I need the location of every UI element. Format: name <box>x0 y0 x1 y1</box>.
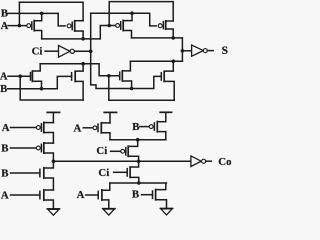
wire B lower <box>8 76 72 88</box>
wire sum node right <box>132 38 183 61</box>
inverter U3 Co <box>191 156 211 167</box>
input label A <box>1 21 9 32</box>
input label B carry-right-N <box>132 188 139 200</box>
junction dot NMOS rail <box>81 62 85 66</box>
svg-text:S: S <box>222 45 228 57</box>
junction dot node1 <box>136 138 140 142</box>
svg-text:B: B <box>1 168 8 180</box>
junction dot carry node left <box>52 160 56 164</box>
wire Ci carry-P <box>111 150 121 152</box>
junction dot rail x173 <box>171 36 175 40</box>
transistor Q5 NMOS gate A <box>31 64 42 89</box>
transistor Q13 PMOS gate A <box>93 123 110 140</box>
transistor Q16 NMOS gate Ci <box>127 161 139 183</box>
ground left <box>47 209 59 215</box>
wire carry node rail <box>53 160 191 162</box>
ground middle <box>103 209 115 216</box>
svg-text:Ci: Ci <box>98 167 109 179</box>
wire A carry-mid-N <box>86 194 99 196</box>
input label A carry-N <box>1 190 9 202</box>
svg-text:B: B <box>0 84 7 95</box>
wire top rail 2 <box>109 2 173 26</box>
junction dot S inverter tap <box>181 49 185 53</box>
transistor Q8 NMOS <box>161 61 174 100</box>
transistor Q12 NMOS gate A <box>40 190 54 209</box>
VDD bar left <box>47 112 59 122</box>
input label A lower <box>0 72 8 83</box>
junction dot Ci-bar tap <box>89 50 93 54</box>
input label B <box>1 9 8 20</box>
junction dot P3 gate line <box>107 24 111 28</box>
junction dot Ci-bar upper line <box>130 11 134 15</box>
svg-text:B: B <box>1 143 8 155</box>
transistor Q2 PMOS gate B <box>67 21 83 39</box>
junction dot A line <box>18 24 22 28</box>
svg-text:Ci: Ci <box>96 145 107 157</box>
wire A carry-P <box>11 127 37 129</box>
svg-text:Ci: Ci <box>32 45 43 57</box>
wire A carry-N <box>11 194 40 196</box>
wire PMOS parallel node <box>110 139 166 141</box>
wire A carry-mid <box>83 127 93 129</box>
wire top rail 1 <box>19 2 83 21</box>
wire Ci-bar upper <box>91 13 157 26</box>
junction dot B line <box>40 12 44 16</box>
transistor Q7 NMOS <box>120 61 132 88</box>
inverter U1 Ci <box>45 45 91 57</box>
input label A carry-mid-N <box>77 189 85 201</box>
VDD bar right <box>160 112 171 121</box>
transistor Q3 PMOS <box>116 13 132 38</box>
wire NMOS sum rail <box>130 60 182 62</box>
wire B carry-P <box>11 147 37 149</box>
output label Co <box>218 156 231 168</box>
junction dot Q7 source <box>130 87 134 91</box>
input label A carry-P <box>2 122 10 134</box>
svg-text:A: A <box>2 122 10 134</box>
input label B lower <box>0 84 7 95</box>
wire B carry-N <box>11 172 40 174</box>
svg-text:A: A <box>73 122 81 134</box>
input label B carry-right <box>132 121 139 133</box>
transistor Q4 PMOS gate Ci-bar <box>158 21 173 38</box>
transistor Q10 PMOS gate B <box>36 143 53 161</box>
transistor Q18 NMOS gate B <box>153 183 167 208</box>
transistor Q15 PMOS gate Ci <box>121 140 139 162</box>
wire Ci carry-N <box>114 171 128 173</box>
input label Ci carry-P <box>96 145 107 157</box>
input label Ci carry-N <box>98 167 109 179</box>
junction dot A lower <box>18 74 22 78</box>
svg-text:B: B <box>132 121 139 133</box>
wire Ci-bar vertical <box>91 13 162 88</box>
wire NMOS parallel node <box>110 182 167 184</box>
junction dot N5 gate <box>107 74 111 78</box>
transistor Q11 NMOS gate B <box>40 161 54 190</box>
input label B carry-N <box>1 168 8 180</box>
junction dot carry node mid <box>137 160 141 164</box>
junction dot node2 <box>137 181 141 185</box>
VDD bar middle <box>104 112 116 123</box>
svg-text:Co: Co <box>218 156 231 168</box>
wire NMOS stage1 rail <box>40 64 119 76</box>
wire A input <box>8 25 27 27</box>
svg-text:A: A <box>0 72 8 83</box>
svg-text:B: B <box>132 188 139 200</box>
input label B carry-P <box>1 143 8 155</box>
svg-text:A: A <box>1 190 9 202</box>
ground right <box>160 208 172 215</box>
wire B carry-right <box>140 126 149 128</box>
wire A to bottom rail <box>20 76 83 100</box>
wire B carry-right-N <box>142 194 153 196</box>
output label S <box>222 45 228 57</box>
transistor Q14 PMOS gate B <box>149 122 166 140</box>
transistor Q17 NMOS gate A <box>98 183 110 209</box>
junction dot rail x83 <box>81 37 85 41</box>
inverter U2 <box>182 45 213 56</box>
wire A lower <box>8 75 30 77</box>
wire N5 gate to lower rail <box>109 76 174 100</box>
node A branch riser <box>18 2 20 25</box>
input label A carry-mid <box>73 122 81 134</box>
wire B to Q2 gate <box>58 13 65 26</box>
input label Ci <box>32 45 43 57</box>
transistor Q1 PMOS gate A <box>27 13 42 39</box>
transistor Q6 NMOS gate B <box>72 64 84 100</box>
wire B input <box>8 12 59 14</box>
junction dot N6 top <box>172 59 176 63</box>
svg-text:A: A <box>77 189 85 201</box>
transistor Q9 PMOS gate A <box>36 122 53 143</box>
wire XNOR node rail <box>42 26 116 39</box>
junction dot B lower <box>40 87 44 91</box>
